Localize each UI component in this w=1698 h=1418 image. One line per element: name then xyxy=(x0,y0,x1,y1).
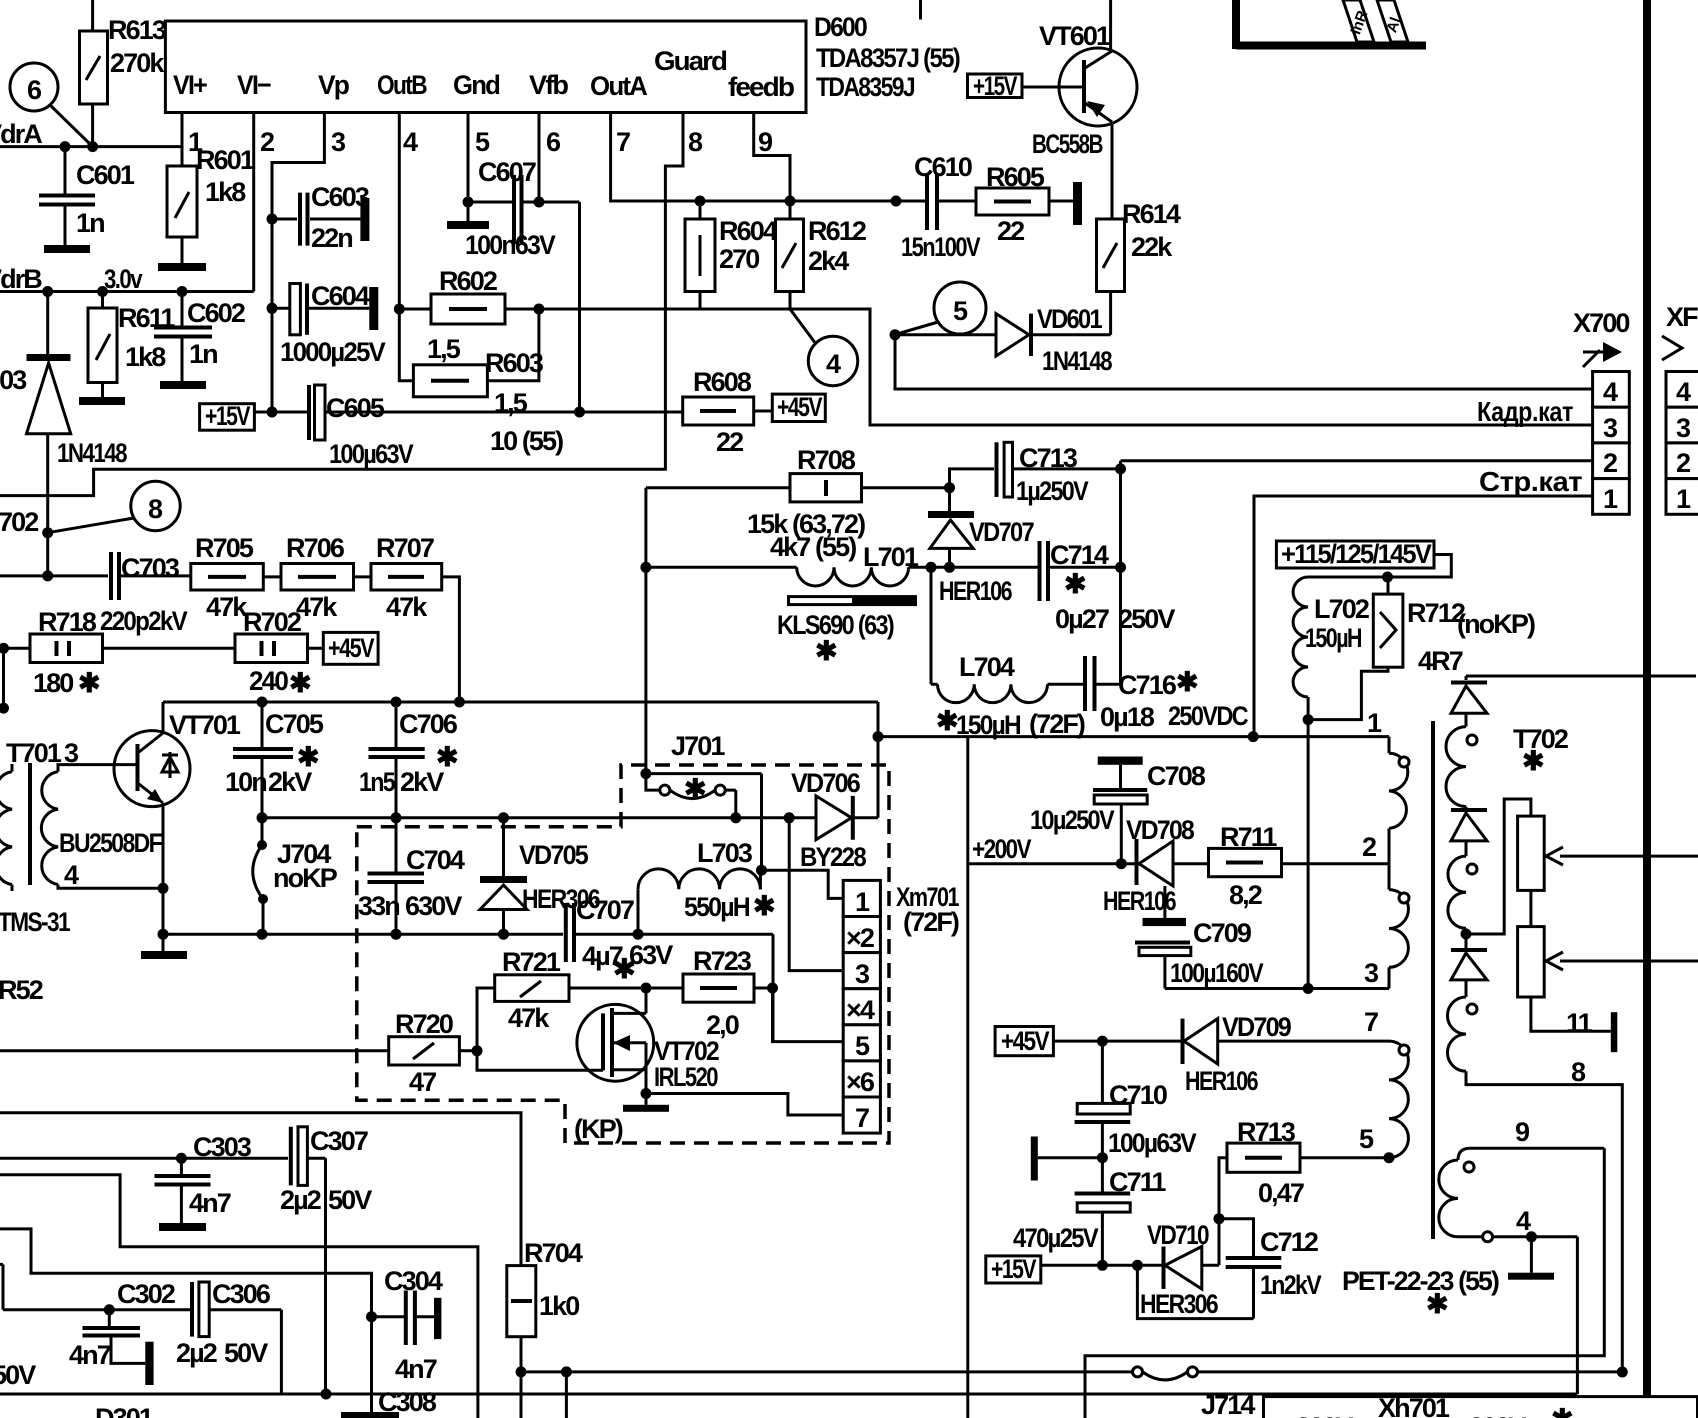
svg-text:4n7: 4n7 xyxy=(69,1340,111,1370)
connector XF7 (cut at edge) xyxy=(1662,302,1698,514)
winding T702 9-4 heater xyxy=(1439,1117,1605,1242)
svg-text:PET-22-23 (55): PET-22-23 (55) xyxy=(1342,1266,1499,1296)
svg-text:703: 703 xyxy=(0,365,27,395)
svg-text:1n: 1n xyxy=(189,339,217,369)
resistor R708 xyxy=(646,445,955,567)
svg-text:3.0v: 3.0v xyxy=(104,264,143,294)
svg-text:R711: R711 xyxy=(1220,822,1277,852)
transformer T702 primary winding 1-2-3-7-5 xyxy=(1359,708,1409,1163)
svg-text:200V: 200V xyxy=(1296,1412,1353,1418)
svg-text:47k: 47k xyxy=(508,1003,550,1033)
diode T702 sec bottom xyxy=(1451,950,1487,997)
svg-text:(72F): (72F) xyxy=(903,907,959,937)
connector X700 xyxy=(1573,308,1629,514)
svg-text:C712: C712 xyxy=(1260,1227,1318,1257)
capacitor C710 xyxy=(1075,1041,1197,1192)
svg-text:10 (55): 10 (55) xyxy=(490,426,563,456)
capacitor C304 xyxy=(366,1266,443,1384)
svg-text:C601: C601 xyxy=(76,160,135,190)
node PET-22-23 label xyxy=(1342,1266,1499,1319)
svg-text:D600: D600 xyxy=(814,12,867,42)
svg-text:1k0: 1k0 xyxy=(539,1291,579,1321)
svg-text:250VDC: 250VDC xyxy=(1168,701,1248,731)
svg-text:6: 6 xyxy=(27,75,42,105)
svg-text:VD706: VD706 xyxy=(791,768,861,798)
flag label InR xyxy=(1343,0,1374,42)
wire BY228 anode to Xm701 pin3 xyxy=(789,818,843,971)
capacitor C601 xyxy=(39,147,135,253)
svg-text:BU2508DF: BU2508DF xyxy=(59,828,162,858)
resistor R718 xyxy=(0,607,103,714)
svg-text:R721: R721 xyxy=(502,947,561,977)
wire focus divider tap xyxy=(1466,799,1531,934)
svg-text:3: 3 xyxy=(331,127,346,157)
svg-text:(noKP): (noKP) xyxy=(1457,609,1535,639)
winding T702 sec b xyxy=(1448,856,1477,948)
svg-text:XF7: XF7 xyxy=(1666,302,1698,332)
svg-text:200V: 200V xyxy=(1469,1412,1526,1418)
svg-text:✱: ✱ xyxy=(289,668,311,698)
svg-text:+15V: +15V xyxy=(205,401,250,431)
svg-text:D301: D301 xyxy=(95,1403,154,1418)
svg-text:47: 47 xyxy=(409,1067,436,1097)
jumper J714 xyxy=(1133,1367,1623,1418)
svg-text:240: 240 xyxy=(249,666,288,696)
svg-text:3: 3 xyxy=(64,738,79,768)
svg-text:100µ63V: 100µ63V xyxy=(1108,1128,1197,1158)
svg-text:1k8: 1k8 xyxy=(125,342,166,372)
resistor R720 xyxy=(0,1009,483,1097)
svg-text:2µ2: 2µ2 xyxy=(176,1338,217,1368)
resistor R704 xyxy=(507,1238,583,1418)
svg-text:+15V: +15V xyxy=(991,1254,1036,1284)
svg-text:R705: R705 xyxy=(195,533,254,563)
wire +200V horizontal to VD708 xyxy=(968,858,1136,869)
resistor focus upper xyxy=(1518,816,1545,927)
svg-text:1000µ25V: 1000µ25V xyxy=(280,337,386,367)
svg-text:7: 7 xyxy=(1364,1007,1378,1037)
svg-text:+115/125/145V: +115/125/145V xyxy=(1281,539,1432,569)
svg-text:11: 11 xyxy=(1566,1008,1593,1038)
svg-text:1n2kV: 1n2kV xyxy=(1260,1270,1322,1300)
svg-text:HER306: HER306 xyxy=(1140,1289,1219,1319)
jumper J704 xyxy=(253,818,338,934)
svg-text:63V: 63V xyxy=(629,940,673,970)
svg-text:50V: 50V xyxy=(224,1338,268,1368)
svg-text:8: 8 xyxy=(688,127,703,157)
svg-text:2: 2 xyxy=(260,127,274,157)
resistor R613 xyxy=(80,0,167,147)
svg-text:0,47: 0,47 xyxy=(1258,1178,1304,1208)
resistor R713 xyxy=(1214,1117,1390,1265)
resistor R702 xyxy=(103,607,324,698)
svg-text:Стр.кат: Стр.кат xyxy=(1479,466,1582,497)
wire +200V rail xyxy=(873,731,1390,742)
inductor L704 xyxy=(931,567,1085,740)
terminal bar C710/C711 xyxy=(1031,1137,1103,1181)
diode VD707 HER106 xyxy=(928,488,1034,606)
svg-text:4: 4 xyxy=(826,349,841,379)
resistor R605 xyxy=(976,162,1082,246)
connector Xh701 box (cut at bottom) xyxy=(1264,1393,1698,1418)
svg-text:630V: 630V xyxy=(405,891,462,921)
svg-text:100n63V: 100n63V xyxy=(465,230,556,260)
svg-text:C308: C308 xyxy=(378,1387,437,1417)
thick module border top-right xyxy=(1236,0,1426,49)
svg-text:2,0: 2,0 xyxy=(706,1010,739,1040)
svg-text:R713: R713 xyxy=(1237,1117,1296,1147)
svg-text:R603: R603 xyxy=(485,348,544,378)
wire Gnd pin5 and capacitor C607 xyxy=(447,113,585,418)
svg-text:4: 4 xyxy=(64,860,79,890)
capacitor C306 xyxy=(176,1279,281,1394)
svg-text:C703: C703 xyxy=(121,553,180,583)
diode VD709 HER106 xyxy=(1102,1012,1389,1096)
svg-text:Gnd: Gnd xyxy=(453,70,499,100)
svg-text:4k7 (55): 4k7 (55) xyxy=(770,532,856,562)
wire net VdrA xyxy=(0,119,182,152)
resistor R608 xyxy=(683,367,773,457)
svg-text:TDA8359J: TDA8359J xyxy=(816,72,915,102)
capacitor C713 xyxy=(950,442,1127,506)
power +15V (C605 rail) xyxy=(200,401,307,431)
svg-text:C604: C604 xyxy=(311,281,370,311)
svg-text:50V: 50V xyxy=(0,1360,36,1390)
svg-text:VD708: VD708 xyxy=(1126,815,1195,845)
node circle 8 and net 702 xyxy=(0,481,180,538)
wire rail collector y702 xyxy=(163,697,878,818)
svg-text:C602: C602 xyxy=(187,298,245,328)
svg-text:VD709: VD709 xyxy=(1222,1012,1292,1042)
winding T702 sec c xyxy=(1447,997,1477,1071)
wire focus arrow lower xyxy=(1546,952,1698,970)
svg-text:R718: R718 xyxy=(38,607,97,637)
svg-text:470µ25V: 470µ25V xyxy=(1013,1223,1099,1253)
svg-text:4n7: 4n7 xyxy=(395,1354,437,1384)
wire W3 bottom net xyxy=(0,1237,1577,1400)
resistor R706 xyxy=(263,533,353,622)
wire T702 pin3 net xyxy=(1165,983,1389,994)
svg-text:R605: R605 xyxy=(986,162,1045,192)
svg-text:1n: 1n xyxy=(76,208,104,238)
svg-text:100µ63V: 100µ63V xyxy=(329,439,414,469)
diode VD703 1N4148 xyxy=(0,292,128,576)
svg-text:C706: C706 xyxy=(399,709,458,739)
svg-text:×6: ×6 xyxy=(846,1067,875,1097)
svg-text:10n: 10n xyxy=(225,767,266,797)
wire net VdrB 3.0v xyxy=(0,113,254,298)
node T702 label xyxy=(1513,724,1568,776)
svg-text:100µ160V: 100µ160V xyxy=(1170,958,1264,988)
svg-text:✱: ✱ xyxy=(753,891,775,921)
svg-text:C707: C707 xyxy=(576,895,634,925)
svg-text:C711: C711 xyxy=(1109,1167,1166,1197)
svg-text:47k: 47k xyxy=(386,592,428,622)
svg-text:BC558B: BC558B xyxy=(1032,129,1103,159)
svg-text:C710: C710 xyxy=(1109,1080,1167,1110)
svg-text:10µ250V: 10µ250V xyxy=(1030,805,1115,835)
capacitor C712 xyxy=(1219,1219,1322,1319)
svg-text:R708: R708 xyxy=(797,445,856,475)
transistor VT601 BC558B xyxy=(1022,0,1137,219)
wire +200V branch down xyxy=(968,737,1032,1418)
svg-text:X700: X700 xyxy=(1573,308,1629,338)
svg-text:1: 1 xyxy=(1367,708,1382,738)
svg-text:1,5: 1,5 xyxy=(427,334,461,364)
svg-text:6: 6 xyxy=(546,127,561,157)
capacitor C604 xyxy=(272,281,386,367)
svg-text:Vp: Vp xyxy=(318,70,349,100)
resistor R603 xyxy=(413,348,543,418)
power +15V (VT601 base) xyxy=(968,71,1023,101)
svg-text:3: 3 xyxy=(1603,413,1618,443)
svg-text:R702: R702 xyxy=(243,607,301,637)
svg-text:8: 8 xyxy=(1571,1057,1586,1087)
svg-text:VI−: VI− xyxy=(237,70,271,100)
resistor R614 xyxy=(1097,199,1181,335)
svg-text:5: 5 xyxy=(475,127,490,157)
svg-text:2: 2 xyxy=(1676,448,1690,478)
svg-text:R602: R602 xyxy=(439,266,497,296)
svg-text:feedb: feedb xyxy=(728,72,794,102)
svg-text:VD601: VD601 xyxy=(1037,304,1103,334)
wire C302 net xyxy=(0,1264,190,1390)
transformer T701 xyxy=(0,738,163,1005)
wire rail y817.8 xyxy=(262,816,816,819)
capacitor C716 xyxy=(1085,656,1248,732)
svg-text:✱: ✱ xyxy=(1522,746,1544,776)
svg-text:OutB: OutB xyxy=(377,70,427,100)
svg-text:C610: C610 xyxy=(914,152,972,182)
svg-text:TDA8357J (55): TDA8357J (55) xyxy=(816,43,960,73)
svg-text:180: 180 xyxy=(33,668,73,698)
svg-text:R720: R720 xyxy=(395,1009,453,1039)
svg-text:C714: C714 xyxy=(1050,540,1109,570)
wire OutA net (pin7) xyxy=(611,113,925,207)
svg-text:1k8: 1k8 xyxy=(205,177,246,207)
svg-text:R608: R608 xyxy=(693,367,752,397)
connector Xm701 xyxy=(843,880,959,1133)
svg-text:1n5: 1n5 xyxy=(359,767,396,797)
resistor R602 xyxy=(427,266,505,364)
node circle 6 xyxy=(10,63,91,145)
svg-text:VdrB: VdrB xyxy=(0,264,42,294)
transistor VT702 IRL520 xyxy=(477,988,843,1115)
svg-text:4: 4 xyxy=(403,127,418,157)
svg-text:4: 4 xyxy=(1516,1206,1531,1236)
svg-text:1N4148: 1N4148 xyxy=(1042,346,1113,376)
power +15V (VD710) xyxy=(986,1254,1162,1284)
svg-text:VT601: VT601 xyxy=(1039,21,1111,51)
wire X700 pin1 net xyxy=(1254,496,1593,737)
capacitor C706 xyxy=(359,702,458,823)
wire focus arrow upper xyxy=(1546,847,1698,865)
svg-text:5: 5 xyxy=(1359,1124,1374,1154)
capacitor C709 xyxy=(1135,886,1264,989)
svg-text:×2: ×2 xyxy=(846,923,874,953)
svg-text:C603: C603 xyxy=(311,182,370,212)
pin numbers D600 1-9 xyxy=(188,127,773,157)
svg-text:R604: R604 xyxy=(719,216,778,246)
svg-text:L702: L702 xyxy=(1314,594,1369,624)
svg-text:9: 9 xyxy=(758,127,773,157)
wire net to X700 pin4 xyxy=(895,335,1593,389)
svg-text:C713: C713 xyxy=(1019,443,1078,473)
capacitor C704 xyxy=(358,818,465,934)
svg-text:4R7: 4R7 xyxy=(1418,646,1463,676)
svg-text:R707: R707 xyxy=(376,533,434,563)
svg-text:BY228: BY228 xyxy=(800,842,867,872)
svg-text:T701: T701 xyxy=(6,738,62,768)
wire net Стр.кат to X700 pin2 xyxy=(1121,461,1593,497)
svg-text:C704: C704 xyxy=(406,845,465,875)
wire net OutB pin4 to R602/R603 xyxy=(394,113,545,381)
svg-text:250V: 250V xyxy=(1118,604,1175,634)
svg-text:HER106: HER106 xyxy=(939,576,1012,606)
resistor R604 xyxy=(685,201,778,308)
svg-text:3: 3 xyxy=(855,959,870,989)
svg-text:Кадр.кат: Кадр.кат xyxy=(1477,396,1573,427)
svg-text:22: 22 xyxy=(997,216,1024,246)
svg-text:4: 4 xyxy=(1676,377,1691,407)
svg-text:C705: C705 xyxy=(265,709,324,739)
svg-text:8: 8 xyxy=(148,494,163,524)
capacitor C708 xyxy=(1030,757,1206,864)
svg-text:0µ27: 0µ27 xyxy=(1055,604,1109,634)
resistor R712 xyxy=(1308,577,1535,720)
svg-text:2kV: 2kV xyxy=(400,767,444,797)
wire net 4 (to X700 pin3) Кадр.кат xyxy=(539,309,1593,427)
svg-text:VD705: VD705 xyxy=(519,840,589,870)
svg-text:✱: ✱ xyxy=(78,668,100,698)
resistor R723 xyxy=(646,946,843,1042)
svg-text:3: 3 xyxy=(1676,413,1691,443)
svg-text:47k: 47k xyxy=(296,592,338,622)
svg-text:15n100V: 15n100V xyxy=(901,232,981,262)
capacitor C705 xyxy=(225,702,324,823)
ground T702 pin4 xyxy=(1508,1237,1554,1280)
svg-text:VD710: VD710 xyxy=(1147,1220,1209,1250)
wire pin8 net D600.8 xyxy=(0,113,683,496)
svg-text:R723: R723 xyxy=(693,946,752,976)
svg-text:4: 4 xyxy=(1603,377,1618,407)
capacitor C307 xyxy=(280,1126,372,1394)
diode VD710 HER306 xyxy=(1140,1220,1219,1319)
svg-text:C304: C304 xyxy=(384,1266,443,1296)
svg-text:9: 9 xyxy=(1515,1117,1530,1147)
dashed box KP region xyxy=(357,765,889,1143)
svg-text:TMS-31: TMS-31 xyxy=(0,907,71,937)
wire R712/L702 down to T702 pin3 net xyxy=(1307,720,1310,989)
diode T702 sec top xyxy=(1451,676,1487,727)
capacitor C302 xyxy=(69,1279,175,1385)
diode T702 sec mid xyxy=(1451,807,1487,857)
svg-text:2: 2 xyxy=(1362,832,1376,862)
svg-text:+45V: +45V xyxy=(328,633,375,663)
svg-text:R613: R613 xyxy=(108,15,167,45)
svg-text:150µH: 150µH xyxy=(1305,623,1361,653)
svg-text:5: 5 xyxy=(855,1031,870,1061)
capacitor C714 xyxy=(1040,540,1176,634)
svg-text:L703: L703 xyxy=(697,838,753,868)
power +115/125/145V box xyxy=(1276,539,1451,583)
inductor L701 xyxy=(640,542,1039,586)
svg-text:J701: J701 xyxy=(671,731,725,761)
wire W1 pin9 net xyxy=(1085,1148,1604,1418)
svg-text:33n: 33n xyxy=(358,891,399,921)
wire drive to R704 xyxy=(0,1113,521,1266)
svg-text:✱: ✱ xyxy=(1426,1289,1448,1319)
svg-text:50V: 50V xyxy=(328,1185,372,1215)
svg-text:+15V: +15V xyxy=(973,71,1017,101)
svg-text:R614: R614 xyxy=(1122,199,1181,229)
diode VD705 HER306 xyxy=(480,812,601,934)
svg-text:HER106: HER106 xyxy=(1185,1066,1258,1096)
svg-text:VdrA: VdrA xyxy=(0,119,42,149)
wire vertical C713-C714-C716 xyxy=(1119,461,1122,685)
transistor VT701 BU2508DF xyxy=(59,702,241,959)
capacitor C603 xyxy=(272,182,370,253)
svg-text:C307: C307 xyxy=(310,1126,368,1156)
svg-text:C302: C302 xyxy=(117,1279,175,1309)
power +45V (VD709) xyxy=(995,1026,1108,1056)
svg-text:1: 1 xyxy=(1603,484,1618,514)
svg-text:VD707: VD707 xyxy=(969,517,1034,547)
svg-text:R601: R601 xyxy=(196,145,255,175)
svg-text:1: 1 xyxy=(1676,484,1691,514)
svg-text:VT701: VT701 xyxy=(169,710,241,740)
inductor L702 xyxy=(1293,577,1369,725)
wire L703 to Xm701 pin1 xyxy=(762,870,844,898)
wire stub top (off-page) xyxy=(919,0,922,20)
diode VD708 HER106 xyxy=(1103,815,1209,916)
svg-text:+200V: +200V xyxy=(972,834,1032,864)
svg-text:OutA: OutA xyxy=(590,71,647,101)
op-amp U1 : vertical deflection IC D600 TDA8357J box xyxy=(165,21,806,113)
svg-text:L701: L701 xyxy=(863,542,919,572)
wire W2 J714 net xyxy=(521,1366,1133,1418)
flag label Al xyxy=(1377,0,1408,42)
svg-text:5: 5 xyxy=(953,296,968,326)
svg-text:✱: ✱ xyxy=(1176,667,1198,697)
resistor R601 xyxy=(158,113,255,272)
winding T702 sec a xyxy=(1446,727,1477,807)
svg-text:R704: R704 xyxy=(524,1238,583,1268)
svg-text:C607: C607 xyxy=(478,157,536,187)
svg-text:1N4148: 1N4148 xyxy=(57,438,128,468)
svg-text:VI+: VI+ xyxy=(173,70,207,100)
svg-text:×4: ×4 xyxy=(846,995,875,1025)
resistor R707 xyxy=(353,533,459,702)
svg-text:✱: ✱ xyxy=(1064,569,1086,599)
svg-text:270k: 270k xyxy=(110,48,165,78)
svg-text:550µH: 550µH xyxy=(684,892,749,922)
capacitor C610 xyxy=(901,152,981,262)
inductor L703 xyxy=(638,838,775,934)
svg-text:✱: ✱ xyxy=(815,636,837,666)
resistor R611 xyxy=(79,292,175,406)
svg-text:(KP): (KP) xyxy=(574,1114,623,1144)
svg-text:1: 1 xyxy=(855,887,870,917)
svg-text:1µ250V: 1µ250V xyxy=(1016,476,1089,506)
svg-text:+45V: +45V xyxy=(1001,1026,1050,1056)
capacitor C605 xyxy=(309,385,683,469)
svg-text:C709: C709 xyxy=(1193,918,1252,948)
wire L2 net xyxy=(0,1229,372,1412)
wire VD710/C712 bottom loop xyxy=(1137,1265,1253,1318)
wire T702 pin8 net xyxy=(1466,1057,1628,1378)
svg-text:C708: C708 xyxy=(1147,761,1206,791)
